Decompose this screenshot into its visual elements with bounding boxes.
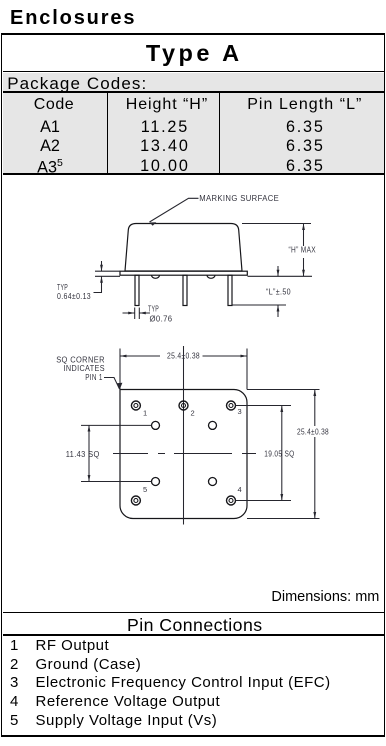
- arrowhead: marking surface leader: [150, 222, 157, 225]
- svg-text:3: 3: [238, 407, 242, 416]
- svg-text:PIN 1: PIN 1: [85, 373, 103, 382]
- dimension 0.64: extension lines: [95, 271, 120, 276]
- side view: pin 2 (middle): [183, 275, 187, 305]
- arrowhead: H bottom: [302, 270, 305, 277]
- dimension H: top extension line: [242, 223, 311, 225]
- page title: [10, 7, 136, 30]
- table row A3: [0, 157, 100, 177]
- svg-text:0.64±0.13: 0.64±0.13: [57, 292, 91, 301]
- dimension H/L: plate bottom extension line: [248, 275, 313, 277]
- arrowhead: 25.4 top left: [120, 355, 127, 358]
- side view: base plate: [120, 271, 247, 275]
- dimension 25.4 top: extension lines: [120, 349, 247, 390]
- dimension 0.76: arrow lines: [123, 312, 151, 314]
- standoff bottom-right: [209, 478, 217, 486]
- pin 3 pad (double circle): [227, 401, 236, 410]
- dimension L: upper arrow line: [277, 266, 279, 276]
- side view: pin 3 (right): [228, 275, 232, 305]
- pin connection list: [10, 637, 19, 731]
- arrowhead: 19.05 down: [280, 494, 283, 501]
- svg-text:MARKING SURFACE: MARKING SURFACE: [199, 194, 279, 203]
- svg-text:2: 2: [191, 408, 195, 417]
- dimension L: pin bottom extension line: [232, 304, 286, 306]
- Package Codes bar: [3, 73, 385, 93]
- svg-text:5: 5: [143, 485, 147, 494]
- dimension 0.64: arrow lines and leader: [94, 261, 102, 293]
- bottom view: package outline, square corner top-left: [120, 390, 247, 519]
- side view: pin 1 (left): [135, 275, 139, 305]
- leader line: marking surface: [150, 198, 199, 222]
- table row A2: [0, 137, 100, 156]
- arrowhead: 25.4 right down: [313, 512, 316, 519]
- pin 1 pad (double circle): [131, 401, 140, 410]
- side view: standoff bump right: [207, 275, 215, 278]
- arrowhead: 11.43 up: [88, 425, 91, 432]
- arrowhead: 0.76 right: [128, 312, 135, 315]
- standoff top-right: [209, 421, 217, 429]
- svg-text:11.43 SQ: 11.43 SQ: [66, 450, 100, 459]
- centerline: vertical: [183, 346, 185, 525]
- Type A header row: [3, 35, 385, 72]
- svg-text:25.4±0.38: 25.4±0.38: [297, 427, 329, 436]
- dimension 25.4 right: extension lines: [247, 390, 320, 519]
- dimension 25.4 top: dimension line: [120, 355, 247, 357]
- svg-text:TYP: TYP: [57, 283, 68, 292]
- dimension 11.43: dimension line: [88, 425, 90, 482]
- svg-text:Ø0.76: Ø0.76: [150, 315, 173, 324]
- arrowhead: 0.64 up: [100, 276, 103, 283]
- side view: oscillator can body: [125, 224, 242, 272]
- svg-text:1: 1: [143, 408, 147, 417]
- svg-text:“H” MAX: “H” MAX: [289, 245, 317, 254]
- pin 2 pad (double circle): [179, 401, 188, 410]
- dimension 19.05: dimension line: [281, 406, 283, 501]
- leader: pin 4 to right: [236, 500, 291, 502]
- arrowhead: L up to pin end: [277, 305, 280, 312]
- leader: standoff row top to left: [81, 424, 151, 426]
- table header row: [4, 96, 104, 114]
- leader: sq corner to pin 1 corner: [104, 378, 120, 390]
- leader: standoff row bottom to left: [81, 481, 151, 483]
- svg-text:25.4±0.38: 25.4±0.38: [167, 352, 200, 361]
- svg-text:4: 4: [238, 485, 242, 494]
- leader: pin 3 to right: [236, 405, 291, 407]
- svg-text:TYP: TYP: [148, 305, 159, 314]
- arrowhead: 25.4 right up: [313, 390, 316, 397]
- arrowhead: 19.05 up: [280, 406, 283, 413]
- pin 5 pad (double circle): [131, 496, 140, 505]
- table column separators: [107, 93, 108, 173]
- package codes table: [3, 93, 385, 175]
- centerline: horizontal dash-dot: [113, 453, 256, 455]
- svg-text:“L”±.50: “L”±.50: [266, 288, 291, 297]
- svg-text:INDICATES: INDICATES: [64, 364, 105, 373]
- dimension 0.76: pin side extension lines: [135, 308, 140, 320]
- arrowhead: 0.76 left: [139, 312, 146, 315]
- dimensions note: [271, 589, 379, 605]
- arrowhead: H top: [302, 224, 305, 231]
- side view: standoff bump left: [152, 275, 160, 278]
- arrowhead: 0.64 down: [100, 265, 103, 272]
- table row A1: [0, 118, 100, 137]
- arrowhead: 11.43 down: [88, 475, 91, 482]
- dimension L: lower arrow line: [277, 305, 279, 317]
- dimension 25.4 right: dimension line: [314, 390, 316, 519]
- svg-text:19.05 SQ: 19.05 SQ: [264, 449, 294, 458]
- dimension H: dimension line with arrows: [303, 223, 305, 276]
- Pin Connections header: [3, 612, 385, 636]
- arrowhead: sq corner leader: [117, 383, 123, 389]
- pin 4 pad (double circle): [227, 496, 236, 505]
- arrowhead: 25.4 top right: [241, 355, 248, 358]
- standoff top-left: [152, 421, 160, 429]
- standoff bottom-left: [152, 478, 160, 486]
- arrowhead: L down to plate: [277, 270, 280, 277]
